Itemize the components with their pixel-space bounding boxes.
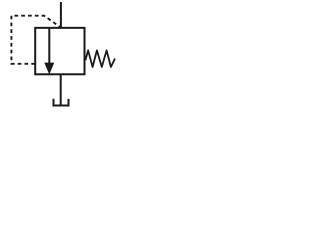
tank symbol <box>54 99 69 106</box>
valve body envelope (square) <box>35 28 84 74</box>
spring (right side) <box>85 50 115 67</box>
wire: inlet line P (top) <box>60 2 62 28</box>
pilot line (dashed, taps inlet, loops to left side of body) <box>11 16 60 64</box>
flow-path arrow (normally closed, points down to tank) <box>45 29 54 74</box>
wire: drain line to tank <box>60 74 62 105</box>
